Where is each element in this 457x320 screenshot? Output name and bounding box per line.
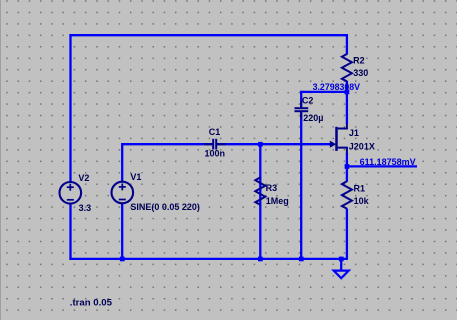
wire R1 upper (346, 166, 348, 181)
node junction ground (339, 257, 344, 262)
svg-text:SINE(0 0.05 220): SINE(0 0.05 220) (130, 202, 200, 212)
voltage source V2 (60, 182, 82, 204)
wire V1 branch (121, 143, 123, 259)
svg-text:C2: C2 (302, 95, 314, 105)
capacitor C2 (295, 101, 309, 119)
resistor R2 (342, 54, 352, 81)
capacitor C1 (204, 139, 226, 150)
wire R3 branch (259, 144, 261, 259)
wire R1 lower (346, 208, 348, 260)
wire C2 horizontal (300, 91, 348, 93)
svg-text:R1: R1 (354, 183, 366, 193)
wire source (346, 153, 348, 166)
wire left rail (69, 34, 71, 260)
node junction source node (345, 164, 350, 169)
wire bottom rail (69, 258, 348, 260)
svg-text:220µ: 220µ (303, 113, 323, 123)
wire output node (347, 165, 417, 167)
svg-text:J201X: J201X (349, 142, 375, 152)
svg-text:330: 330 (353, 68, 368, 78)
svg-text:V2: V2 (78, 173, 89, 183)
wire R2 to node (346, 81, 348, 93)
svg-text:3.3: 3.3 (79, 203, 92, 213)
wire drain (346, 92, 348, 124)
svg-text:V1: V1 (130, 172, 141, 182)
svg-text:J1: J1 (349, 128, 359, 138)
node junction C2 bottom (299, 257, 304, 262)
ground (334, 259, 349, 278)
resistor R1 (342, 181, 352, 208)
svg-text:C1: C1 (209, 127, 221, 137)
voltage source V1 (112, 182, 134, 204)
node junction drain node (345, 90, 350, 95)
transistor J1 (330, 124, 347, 154)
wire C2 branch lower (300, 112, 302, 259)
svg-text:100n: 100n (205, 148, 226, 158)
svg-text:611.18758mV: 611.18758mV (360, 157, 416, 167)
node junction R3 bottom (258, 257, 263, 262)
svg-text:.tran 0.05: .tran 0.05 (70, 297, 113, 308)
node junction R3 top (258, 142, 263, 147)
wire top rail (69, 34, 348, 36)
wire C1 gate segment right (217, 143, 331, 145)
wire R2 branch (346, 34, 348, 54)
wire C1 gate segment left (121, 143, 212, 145)
svg-text:3.2798308V: 3.2798308V (313, 82, 361, 92)
node junction V1 bottom (120, 257, 125, 262)
svg-text:1Meg: 1Meg (266, 196, 289, 206)
resistor R3 (255, 177, 265, 204)
svg-text:R2: R2 (353, 55, 365, 65)
svg-text:R3: R3 (266, 183, 278, 193)
wire C2 branch upper (300, 91, 302, 108)
svg-text:10k: 10k (354, 196, 370, 206)
